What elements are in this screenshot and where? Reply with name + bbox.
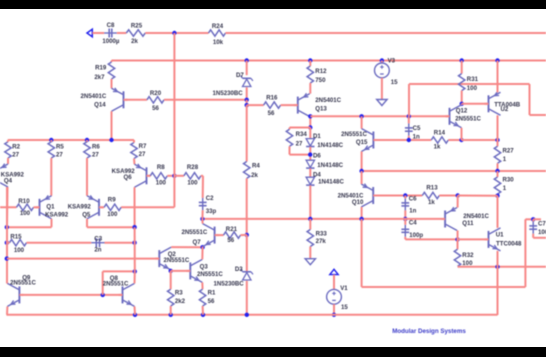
svg-text:56: 56 [152, 105, 159, 112]
svg-text:1N4148C: 1N4148C [317, 162, 343, 169]
svg-text:10k: 10k [213, 39, 224, 46]
svg-text:1k: 1k [428, 199, 435, 206]
transistor Q10 2N5401C [338, 184, 378, 207]
wire arrow to V1 [333, 275, 335, 290]
svg-text:V1: V1 [340, 285, 348, 292]
wire R7 to Q6 emitter [133, 159, 136, 165]
wire Q5 collector right [87, 226, 135, 228]
svg-text:R2: R2 [12, 143, 20, 150]
svg-text:2N5551C: 2N5551C [455, 116, 481, 123]
wire R1 to bottom rail [202, 306, 204, 315]
svg-text:1N4148C: 1N4148C [318, 178, 344, 185]
transistor Q4 KSA992 [0, 164, 24, 187]
svg-text:2k7: 2k7 [94, 74, 105, 81]
svg-text:1: 1 [503, 185, 507, 192]
junction C3 right [132, 241, 136, 245]
resistor R19 [94, 62, 114, 81]
wire C7 bottom lead [532, 234, 534, 238]
wire Q6 column down [134, 227, 136, 271]
svg-text:C6: C6 [409, 196, 417, 203]
svg-text:Q13: Q13 [315, 105, 327, 112]
svg-text:1N4148C: 1N4148C [317, 142, 343, 149]
svg-text:U2: U2 [501, 106, 509, 113]
wire R34 bottom lead [289, 146, 291, 154]
wire Q14 base to R20 [126, 99, 148, 101]
svg-text:100: 100 [14, 247, 25, 254]
svg-text:R33: R33 [316, 230, 328, 237]
wire D1 to D6 [309, 147, 311, 160]
svg-text:1N5230BC: 1N5230BC [213, 90, 244, 97]
wire Q14 collector down [111, 111, 113, 140]
wire Q5 collector down [86, 219, 88, 227]
wire C7 stub right [533, 218, 541, 220]
junction Q12 emitter [459, 138, 463, 142]
transistor U1 TTC0048 [485, 228, 523, 251]
wire Q11 collector down [457, 231, 459, 240]
junction R5 top [49, 138, 53, 142]
wire R25 to node [145, 32, 174, 34]
wire R19 to Q14 emitter [111, 79, 113, 88]
wire output rail [362, 170, 546, 172]
svg-text:R4: R4 [252, 162, 260, 169]
svg-text:R19: R19 [95, 65, 107, 72]
transistor U2 TTA004B [485, 92, 521, 115]
wire R6 top [86, 140, 88, 142]
svg-text:100: 100 [156, 179, 167, 186]
wire R14 to Q12 emitter [448, 139, 461, 141]
wire Q13 to Q12 base [310, 115, 449, 117]
wire bootstrap horizontal [409, 83, 530, 85]
wire to R27 top [462, 139, 498, 141]
svg-text:27: 27 [139, 151, 146, 158]
junction R3 bottom [169, 313, 173, 317]
wire base loop right [103, 270, 135, 272]
svg-text:R9: R9 [108, 196, 116, 203]
svg-text:27: 27 [12, 151, 19, 158]
wire D7 node to R16 [247, 104, 264, 106]
wire VAS output rail [202, 218, 445, 220]
junction R15 left [5, 241, 9, 245]
wire R30 top lead [497, 171, 499, 177]
svg-text:R32: R32 [462, 252, 474, 259]
wire R32 top lead [457, 239, 459, 249]
svg-text:Q6: Q6 [124, 174, 133, 181]
wire C6 top lead [404, 196, 406, 199]
svg-text:1n: 1n [409, 208, 416, 215]
wire R28 down to C2 [202, 176, 204, 198]
wire bottom rail [7, 314, 498, 316]
wire R28 corner [201, 175, 203, 177]
svg-text:C7: C7 [538, 221, 546, 228]
resistor R33 [307, 230, 327, 247]
resistor R25 [126, 23, 145, 46]
wire V3 stub [381, 61, 383, 64]
svg-text:1N5230BC: 1N5230BC [214, 281, 245, 288]
wire C3 to Q6 column [105, 242, 135, 244]
wire R13 to Q11 emitter [439, 195, 457, 197]
wire R30 bottom lead [497, 194, 499, 196]
resistor R20 [147, 90, 164, 112]
svg-text:2k: 2k [251, 172, 258, 179]
capacitor C7 [529, 221, 546, 236]
wire C2 top lead [202, 197, 204, 199]
junction R27 top [495, 138, 499, 142]
resistor R27 [494, 146, 514, 163]
junction D7 top [245, 58, 249, 62]
wire D1 top lead [309, 128, 311, 139]
wire R12 top [309, 61, 311, 67]
junction R8-R28 [172, 174, 176, 178]
wire R5 to Q1 emitter [50, 158, 52, 196]
svg-text:D6: D6 [313, 153, 321, 160]
svg-text:33p: 33p [206, 208, 217, 215]
junction Q2 base rail [5, 256, 9, 260]
junction C7 top [531, 217, 535, 221]
svg-text:750: 750 [315, 77, 326, 84]
svg-text:R8: R8 [157, 164, 165, 171]
wire R3 to bottom rail [170, 306, 172, 315]
resistor R12 [307, 66, 327, 84]
transistor Q3 2N5551C [186, 259, 223, 282]
svg-text:2k: 2k [131, 38, 138, 45]
transistor Q9 2N5551C [7, 274, 36, 306]
junction Q2 emitter [169, 269, 173, 273]
junction Q15 collector [359, 114, 363, 118]
wire D6 to D4 [309, 168, 311, 177]
wire node to R34 [290, 127, 311, 129]
top black bar [0, 0, 546, 9]
junction D7-R20 [245, 98, 249, 102]
wire R27 top lead [497, 140, 499, 146]
junction Q10 collector [359, 217, 363, 221]
svg-text:R5: R5 [56, 143, 64, 150]
junction Q11 collector [455, 237, 459, 241]
svg-text:R7: R7 [139, 143, 147, 150]
svg-text:56: 56 [208, 298, 215, 305]
resistor R3 [168, 289, 186, 306]
svg-text:R16: R16 [266, 94, 278, 101]
svg-text:100: 100 [467, 85, 478, 92]
junction C2 bottom [200, 217, 204, 221]
svg-text:Q10: Q10 [352, 199, 364, 206]
junction D6 top [308, 152, 312, 156]
svg-text:2k2: 2k2 [175, 298, 186, 305]
wire Q3 emitter down [201, 282, 203, 289]
wire V1 to bottom rail [333, 304, 335, 315]
diode D4 [306, 171, 344, 185]
resistor R15 [10, 234, 27, 255]
wire R34 to D6 node [290, 154, 311, 156]
wire C4 top lead [404, 219, 406, 225]
wire U1 emitter down [497, 251, 499, 267]
junction C6 top [403, 193, 407, 197]
junction Q8 emitter [133, 313, 137, 317]
junction base loop [101, 293, 105, 297]
wire Q11 emitter up [457, 196, 459, 208]
junction U2 collector [495, 58, 499, 62]
bottom black bar [0, 347, 546, 357]
wire input left edge [0, 206, 17, 208]
wire R10 to Q1 base [34, 206, 40, 208]
svg-text:2N5551C: 2N5551C [10, 279, 36, 286]
wire Q2 emitter stub [170, 269, 173, 272]
capacitor C8 [102, 22, 120, 45]
svg-text:Q12: Q12 [456, 108, 468, 115]
svg-text:56: 56 [227, 237, 234, 244]
wire node to R28 [174, 175, 184, 177]
resistor R16 [264, 94, 281, 117]
junction V3 top [380, 58, 384, 62]
wire D7 anode [246, 87, 248, 100]
svg-text:1k: 1k [434, 144, 441, 151]
wire R31 to Q12 collector [461, 91, 463, 104]
svg-text:Q3: Q3 [200, 264, 209, 271]
junction Q14 collector in [109, 138, 113, 142]
wire degeneration rail [8, 139, 134, 141]
wire Q13 collector down [309, 117, 311, 128]
svg-text:2N5551C: 2N5551C [164, 257, 190, 264]
transistor Q8 2N5551C [103, 275, 135, 306]
resistor R7 [131, 143, 147, 159]
wire node to R24 [174, 32, 208, 34]
svg-text:56: 56 [268, 110, 275, 117]
svg-text:KSA992: KSA992 [68, 204, 92, 211]
svg-text:R34: R34 [296, 131, 308, 138]
junction input node [172, 31, 176, 35]
diode D6 [306, 153, 344, 169]
input port [87, 29, 92, 37]
svg-text:2N5551C: 2N5551C [182, 229, 208, 236]
transistor Q7 2N5551C [182, 224, 219, 247]
svg-text:R14: R14 [434, 130, 446, 137]
wire Q8 collector up [134, 271, 136, 283]
wire R15 to C3 [27, 242, 92, 244]
wire bootstrap corner down [529, 84, 531, 115]
svg-text:2N5401C: 2N5401C [81, 93, 107, 100]
junction V1 bottom [332, 313, 336, 317]
wire R15 left [7, 242, 10, 244]
wire R21 to R4 column [241, 234, 247, 236]
junction R34 top [308, 125, 312, 129]
svg-text:Q4: Q4 [4, 177, 13, 184]
resistor R1 [199, 289, 216, 306]
wire R21 node to D3 [246, 235, 248, 271]
wire U1 emitter to bottom [497, 267, 499, 315]
svg-text:U1: U1 [496, 232, 504, 239]
wire rail to R19 [111, 61, 113, 63]
wire R12 to Q13 emitter [309, 83, 311, 94]
wire left column [6, 187, 8, 283]
wire U2 emitter down [497, 115, 499, 140]
wire Q7 base stub [217, 234, 224, 236]
transistor Q14 2N5401C [81, 88, 128, 111]
svg-text:2N5401C: 2N5401C [315, 97, 341, 104]
wire R34 top lead [289, 128, 291, 130]
wire bootstrap to right edge [530, 114, 546, 116]
resistor R6 [84, 142, 101, 159]
wire Q12 collector stub [461, 104, 463, 105]
wire C7 top lead [532, 219, 534, 221]
wire rail to D7 [246, 61, 248, 76]
wire R6 to Q5 emitter [86, 158, 88, 196]
resistor R2 [5, 142, 21, 159]
resistor R13 [422, 185, 439, 207]
svg-text:R31: R31 [467, 76, 479, 83]
junction C6-C4 [403, 217, 407, 221]
svg-text:V3: V3 [388, 57, 396, 64]
node output arrow [330, 269, 338, 274]
junction R1 bottom [201, 313, 205, 317]
wire Q15 collector up [361, 116, 363, 128]
junction R6 top [85, 138, 89, 142]
svg-text:R10: R10 [18, 198, 30, 205]
wire D3 to bottom rail [246, 281, 248, 315]
wire C4 to Q11 collector [405, 238, 457, 240]
resistor R4 [244, 162, 261, 179]
wire R3 top lead [170, 271, 172, 289]
wire R8 to node [167, 175, 174, 177]
junction R12 top [308, 58, 312, 62]
transistor Q12 2N5551C [446, 105, 482, 128]
svg-text:C8: C8 [107, 22, 115, 29]
wire R7 top [133, 140, 135, 143]
wire R4 to R21 node [246, 178, 248, 235]
junction C5 bottom [407, 138, 411, 142]
svg-text:D7: D7 [236, 72, 244, 79]
wire C8 to R25 [117, 32, 127, 34]
wire Q12 emitter stub [461, 128, 463, 140]
wire U1 collector up [497, 196, 499, 228]
svg-text:Q5: Q5 [82, 211, 91, 218]
resistor R28 [184, 164, 201, 186]
wire node to node [246, 100, 248, 105]
wire R20 to D7 node [164, 99, 247, 101]
wire Q7 collector up [201, 219, 203, 224]
junction left column a [5, 225, 9, 229]
svg-text:R13: R13 [426, 185, 438, 192]
wire U2 collector up [497, 61, 499, 93]
svg-text:27k: 27k [316, 238, 327, 245]
svg-text:D3: D3 [235, 266, 243, 273]
resistor R34 [286, 129, 307, 147]
wire Q1 collector left [7, 226, 52, 228]
svg-text:2N5551C: 2N5551C [103, 281, 129, 288]
svg-text:27: 27 [296, 141, 303, 148]
svg-text:Q11: Q11 [462, 220, 474, 227]
svg-text:D1: D1 [313, 133, 321, 140]
svg-text:100p: 100p [409, 232, 423, 239]
svg-text:C5: C5 [413, 125, 421, 132]
svg-text:100: 100 [538, 229, 546, 236]
wire Q9 base to Q8 [21, 294, 122, 296]
svg-text:C4: C4 [409, 219, 417, 226]
wire R32 bottom to right [458, 266, 546, 268]
transistor Q5 KSA992 [68, 195, 103, 218]
wire Q1 collector down [51, 219, 53, 227]
svg-text:R12: R12 [315, 68, 327, 75]
junction U1 emitter [495, 265, 499, 269]
capacitor C2 [199, 195, 217, 215]
junction Q13 collector [308, 114, 312, 118]
svg-text:1: 1 [503, 156, 507, 163]
svg-text:15: 15 [341, 304, 348, 311]
wire R24 to right edge [226, 32, 546, 34]
wire C5 top lead [408, 116, 410, 123]
wire upper rail [112, 60, 546, 62]
resistor R10 [17, 198, 34, 217]
capacitor C5 [405, 123, 421, 140]
svg-text:Q14: Q14 [94, 102, 106, 109]
wire Q10 emitter up [361, 171, 363, 184]
wire base loop up [102, 271, 104, 295]
svg-text:27: 27 [56, 151, 63, 158]
capacitor C6 [401, 196, 417, 215]
svg-text:R20: R20 [150, 90, 162, 97]
wire V3 to ground [381, 78, 383, 100]
wire to U1 base [458, 238, 489, 240]
svg-text:R30: R30 [503, 176, 515, 183]
svg-text:R28: R28 [187, 164, 199, 171]
svg-text:Modular Design Systems: Modular Design Systems [392, 328, 466, 335]
resistor R5 [48, 142, 64, 159]
junction D7-R16 [245, 103, 249, 107]
wire R2 to Q4 [7, 158, 9, 164]
svg-text:100: 100 [107, 211, 118, 218]
junction R21 right [245, 233, 249, 237]
wire C7 branch up [524, 219, 526, 287]
wire Q5 base stub [101, 206, 104, 208]
wire R31 top lead [461, 61, 463, 74]
transistor Q1 KSA992 [36, 195, 69, 218]
wire tail rail [7, 258, 160, 260]
svg-text:Q1: Q1 [46, 204, 55, 211]
zener diode D7 [213, 72, 253, 97]
junction R30 bottom [495, 194, 499, 198]
junction Q8 collector [133, 269, 137, 273]
wire Q3 collector up [201, 247, 203, 259]
wire R5 top [50, 140, 52, 142]
wire Q2 collector [171, 246, 202, 248]
svg-text:R27: R27 [503, 148, 515, 155]
wire C7 branch corner [525, 218, 533, 220]
resistor R24 [209, 23, 226, 46]
wire C7 to right edge [533, 237, 546, 239]
wire D7 node to R4 [246, 105, 248, 161]
svg-text:KSA992: KSA992 [45, 211, 69, 218]
wire R2 top [7, 140, 9, 142]
svg-text:R3: R3 [175, 290, 183, 297]
ground V3 [377, 100, 387, 106]
svg-text:TTC0048: TTC0048 [496, 240, 522, 247]
svg-text:100: 100 [20, 210, 31, 217]
capacitor C3 [91, 236, 104, 254]
wire Q15 base line [375, 139, 431, 141]
svg-text:R6: R6 [92, 143, 100, 150]
wire Q15 emitter down [361, 152, 363, 172]
wire to R30 bottom [458, 195, 498, 197]
ground R33 [305, 259, 315, 265]
transistor Q6 KSA992 [112, 164, 151, 187]
wire C5 bottom lead [408, 136, 410, 140]
wire output to C7 branch [361, 219, 363, 287]
wire R33 top lead [309, 219, 311, 230]
svg-text:C2: C2 [206, 195, 214, 202]
transistor Q2 2N5551C [155, 247, 190, 270]
wire feedback horizontal [362, 286, 526, 288]
diode D1 [306, 133, 344, 149]
wire R27 bottom lead [497, 163, 499, 171]
svg-text:Q15: Q15 [356, 139, 368, 146]
